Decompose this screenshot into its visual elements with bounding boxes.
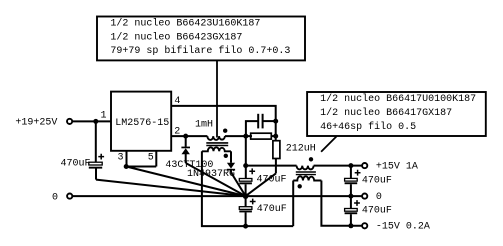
svg-text:4: 4 bbox=[174, 96, 180, 107]
L1 core bbox=[206, 142, 228, 144]
note box B66417 bbox=[307, 92, 486, 136]
node -15 out bbox=[348, 223, 353, 228]
wire pins 3-5 connector bbox=[125, 166, 156, 168]
phase dot L1 top bbox=[223, 129, 227, 133]
node 0 out bbox=[348, 194, 353, 199]
plus C3 bbox=[249, 168, 255, 174]
svg-text:470uF: 470uF bbox=[61, 159, 91, 170]
inductor L2 secondary winding bbox=[293, 176, 321, 180]
terminal circles bbox=[67, 119, 367, 229]
node pins 3-5 bbox=[124, 164, 129, 169]
svg-text:+19+25V: +19+25V bbox=[15, 118, 57, 129]
svg-text:0: 0 bbox=[376, 192, 382, 203]
plus C5 bbox=[354, 200, 360, 206]
svg-text:470uF: 470uF bbox=[257, 204, 287, 215]
node +15 out bbox=[348, 163, 353, 168]
wire L2 secondary left down bbox=[292, 181, 294, 227]
terminal +15V bbox=[362, 163, 367, 168]
diode D2 1N4937RG bbox=[227, 163, 235, 169]
phase dot L1 bottom bbox=[224, 154, 228, 158]
svg-text:0: 0 bbox=[52, 193, 58, 204]
pointer wire from note box to L2 bbox=[321, 136, 336, 151]
svg-text:1/2 nucleo B66423GX187: 1/2 nucleo B66423GX187 bbox=[110, 31, 242, 43]
plus polarity marks bbox=[98, 154, 360, 206]
resistor R1 bbox=[251, 133, 272, 139]
capacitor C5 470uF -15 out bbox=[350, 196, 352, 208]
wire pin 3 down bbox=[126, 151, 128, 167]
wire input + to pin 1 bbox=[73, 120, 111, 122]
regulator U1 LM2576-15 bbox=[111, 92, 171, 151]
capacitor C2 feedback bbox=[246, 121, 258, 136]
svg-text:212uH: 212uH bbox=[286, 143, 316, 154]
svg-text:+15V 1A: +15V 1A bbox=[376, 162, 418, 173]
plus C6 bbox=[250, 199, 256, 205]
wire ground diagonal C1 to star bbox=[96, 180, 246, 197]
wire L2 secondary right down to -15 rail bbox=[321, 181, 361, 226]
node input cap tap bbox=[93, 119, 98, 124]
svg-text:470uF: 470uF bbox=[362, 176, 392, 187]
plus C4 bbox=[355, 170, 361, 176]
svg-text:1/2 nucleo B66417GX187: 1/2 nucleo B66417GX187 bbox=[320, 107, 452, 119]
svg-text:3: 3 bbox=[118, 152, 124, 163]
L2 core bbox=[296, 171, 316, 173]
inductor L2 212uH primary winding bbox=[297, 166, 314, 170]
wire pin 2 to L1 bbox=[171, 135, 207, 137]
pointer wire from note box to L1 bbox=[216, 60, 218, 137]
svg-text:1N4937RG: 1N4937RG bbox=[187, 169, 235, 180]
wire ground diagonal pins3-5 to star bbox=[126, 167, 245, 197]
svg-text:1/2 nucleo B66417U0100K187: 1/2 nucleo B66417U0100K187 bbox=[320, 93, 476, 105]
wire pin 5 down bbox=[155, 151, 157, 167]
wire +15 pre-rail to L2 bbox=[246, 165, 297, 167]
wire L1 secondary left down to -15 rail bbox=[202, 151, 293, 226]
wire pin 4 feedback bbox=[171, 106, 276, 141]
node +15 pre-rail bbox=[243, 163, 248, 168]
inductor L1 1mH primary winding bbox=[207, 136, 225, 140]
junction dots bbox=[93, 119, 353, 229]
svg-text:1mH: 1mH bbox=[195, 119, 213, 130]
terminal 0 in bbox=[67, 194, 72, 199]
svg-text:2: 2 bbox=[174, 127, 180, 138]
node -15 pre-rail bbox=[243, 224, 248, 229]
svg-text:1: 1 bbox=[101, 110, 107, 121]
inductor L1 secondary winding bbox=[202, 147, 231, 151]
wire L1 secondary right to D2 bbox=[230, 151, 232, 163]
node B feedback bbox=[273, 134, 278, 139]
node D1 anode bbox=[183, 134, 188, 139]
svg-text:470uF: 470uF bbox=[257, 175, 287, 186]
svg-text:79+79 sp bifilare filo 0.7+0.3: 79+79 sp bifilare filo 0.7+0.3 bbox=[110, 45, 290, 57]
resistor R2 bbox=[273, 141, 280, 159]
svg-text:46+46sp filo 0.5: 46+46sp filo 0.5 bbox=[320, 121, 416, 133]
svg-text:LM2576-15: LM2576-15 bbox=[115, 118, 169, 129]
node A bbox=[243, 134, 248, 139]
terminal 0 out bbox=[362, 194, 367, 199]
svg-text:-15V 0.2A: -15V 0.2A bbox=[376, 221, 430, 232]
capacitor C3 470uF +15 pre-rail bbox=[239, 179, 252, 182]
svg-text:470uF: 470uF bbox=[362, 206, 392, 217]
wire L1 to node A bbox=[225, 135, 252, 137]
svg-text:5: 5 bbox=[148, 152, 154, 163]
node star ground bbox=[243, 193, 249, 199]
wire ground diagonal D2 to star bbox=[231, 172, 246, 196]
phase dot L2 top bbox=[309, 157, 313, 161]
node C2 right bbox=[273, 119, 278, 124]
note box B66423 bbox=[97, 17, 305, 61]
wire +15 rail bbox=[314, 165, 362, 167]
svg-text:1/2 nucleo B66423U160K187: 1/2 nucleo B66423U160K187 bbox=[110, 17, 260, 29]
terminal -15V bbox=[362, 223, 367, 228]
capacitor C1 470uF input bbox=[95, 121, 97, 162]
plus C1 bbox=[98, 154, 104, 160]
capacitor C4 470uF +15 out bbox=[350, 166, 352, 179]
terminal +19..25V bbox=[67, 119, 72, 124]
phase dot L2 bottom bbox=[298, 184, 302, 188]
wire ground diagonal R2 to star bbox=[246, 173, 276, 196]
wire node A down to +15 pre-rail bbox=[245, 136, 247, 178]
capacitor C6 470uF -15 pre-rail bbox=[245, 196, 247, 207]
wire 0 rail bbox=[73, 195, 362, 197]
wire ground diagonal D1 to star bbox=[186, 163, 246, 196]
diode D1 43CTT100 bbox=[185, 136, 187, 147]
